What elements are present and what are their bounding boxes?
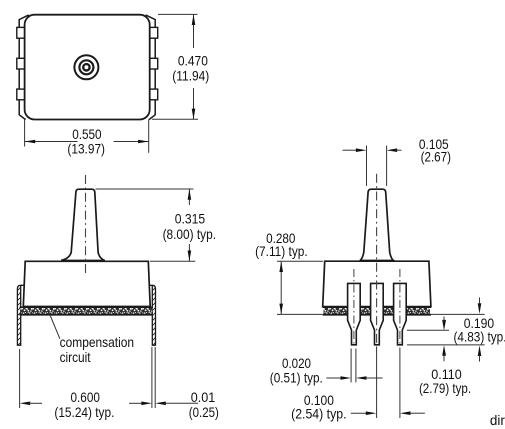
circuit board strip (front view) — [324, 308, 431, 314]
dim 0.100 extension line left (pin2) — [376, 347, 378, 418]
lead tip line — [407, 344, 485, 346]
dim 0.315 arrow up — [188, 189, 192, 200]
dim 0.470 extension line top — [158, 13, 198, 15]
dim 0.110 tail top — [443, 317, 445, 321]
svg-text:compensation: compensation — [60, 334, 135, 350]
svg-text:0.01: 0.01 — [191, 389, 216, 405]
lead shoulder line — [407, 329, 449, 331]
dim 0.190 tail top — [479, 298, 481, 305]
dim 0.600 tail right — [129, 402, 142, 404]
dim 0.315 extension line top — [96, 188, 194, 190]
dim 0.020 tail right — [366, 377, 383, 379]
svg-text:(0.25): (0.25) — [189, 404, 219, 420]
body (front view) — [323, 261, 431, 306]
dim 0.315 arrow down — [188, 251, 192, 262]
dim 0.470 line lower — [193, 88, 195, 119]
dim 0.01 arrow — [155, 402, 166, 406]
dim 0.600 extension line left — [19, 349, 21, 408]
dim 0.190 tail bottom — [479, 355, 481, 362]
svg-text:0.550: 0.550 — [72, 126, 102, 142]
dim 0.100 tail right — [410, 412, 425, 414]
tab right 3 — [150, 89, 158, 100]
dim 0.105 arrow left — [356, 148, 367, 152]
pin 3 — [394, 283, 407, 344]
svg-text:(2.79) typ.: (2.79) typ. — [419, 380, 471, 396]
dim 0.190 arrow bottom — [478, 345, 482, 356]
pin 1 — [348, 283, 361, 344]
tab left 3 — [17, 89, 25, 100]
dim 0.110 tail bottom — [443, 355, 445, 362]
dim 0.280 arrow down — [279, 304, 283, 315]
dim 0.105 arrow right — [387, 148, 398, 152]
dim 0.280 arrow up — [279, 261, 283, 272]
svg-text:circuit: circuit — [60, 349, 91, 365]
leader line — [50, 315, 60, 339]
svg-text:(7.11) typ.: (7.11) typ. — [255, 243, 308, 259]
svg-text:(2.54) typ.: (2.54) typ. — [291, 406, 346, 422]
board bottom edge (front) — [323, 314, 431, 316]
port tube (front view) — [360, 189, 394, 260]
board bottom edge — [20, 314, 153, 316]
cover wall right (side view) — [150, 285, 156, 345]
svg-text:(2.67): (2.67) — [421, 148, 451, 164]
dim 0.550 arrow right — [138, 140, 149, 144]
body (side view) — [23, 261, 150, 306]
dim 0.105 tail right — [396, 149, 402, 151]
dim 0.020 arrow left — [341, 376, 352, 380]
svg-text:dir: dir — [490, 412, 505, 428]
dim 0.100 arrow right — [400, 411, 411, 415]
dim 0.105 extension line left — [366, 146, 368, 186]
pin 3 centerline — [399, 269, 401, 344]
dim 0.315 line upper — [188, 189, 190, 205]
dim 0.470 extension line bottom — [152, 118, 198, 120]
dim 0.600 extension line right inner — [151, 347, 153, 408]
svg-text:(11.94): (11.94) — [172, 67, 209, 83]
dim 0.020 arrow right — [356, 376, 367, 380]
cover edge left — [19, 15, 29, 120]
tab left 1 — [17, 27, 25, 38]
dim 0.020 extension line left — [350, 349, 352, 383]
dim 0.600 tail left — [29, 402, 42, 404]
port ring middle — [79, 60, 93, 74]
port ring outer — [74, 55, 98, 79]
tab right 1 — [150, 27, 158, 38]
dim 0.105 tail left — [343, 149, 358, 151]
dim 0.280 line — [280, 261, 282, 314]
svg-text:(8.00) typ.: (8.00) typ. — [163, 226, 216, 242]
dim 0.110 arrow bottom — [442, 345, 446, 356]
dim 0.280 extension line top — [277, 260, 323, 262]
dim 0.550 line left — [25, 141, 78, 143]
dim 0.470 line upper — [193, 14, 195, 48]
dim 0.190 arrow top — [478, 303, 482, 314]
tab right 2 — [150, 58, 158, 69]
dim 0.100 tail left — [351, 412, 368, 414]
svg-text:(13.97): (13.97) — [67, 141, 105, 157]
svg-text:0.600: 0.600 — [71, 389, 101, 405]
dim 0.600 arrow right — [141, 402, 152, 406]
dim 0.600 arrow left — [20, 402, 31, 406]
dim 0.315 extension line bottom — [150, 260, 195, 262]
board top edge (front) — [323, 306, 431, 308]
svg-text:(0.51) typ.: (0.51) typ. — [270, 369, 323, 385]
dim 0.470 arrow up — [192, 14, 196, 25]
dim 0.020 extension line right — [355, 349, 357, 383]
dim 0.550 extension line right — [148, 120, 150, 153]
svg-text:0.315: 0.315 — [175, 211, 206, 227]
svg-text:0.470: 0.470 — [178, 52, 208, 68]
package body (top view) — [25, 15, 150, 120]
port tube (side view) — [61, 189, 105, 260]
dim 0.01 tail — [165, 402, 199, 404]
board top edge — [20, 306, 153, 308]
pin 1 centerline — [353, 269, 355, 344]
dim 0.550 extension line left — [24, 120, 26, 147]
dim 0.110 arrow top — [442, 320, 446, 331]
dim 0.100 extension line right (pin3) — [399, 348, 401, 419]
package bottom extended line left — [277, 313, 323, 315]
dim 0.315 line lower — [188, 244, 190, 261]
dim 0.105 extension line right — [386, 146, 388, 186]
dim 0.100 arrow left — [366, 411, 377, 415]
dim 0.550 arrow left — [25, 140, 36, 144]
pin 2 — [371, 283, 384, 344]
package bottom extended line right — [431, 313, 485, 315]
dim 0.470 arrow down — [192, 109, 196, 120]
cover edge right — [146, 15, 156, 120]
dim 0.020 tail left — [326, 377, 342, 379]
tab left 2 — [17, 58, 25, 69]
cover wall left (side view) — [17, 285, 25, 345]
centerline (side view) — [85, 175, 87, 274]
dim 0.600 extension line right outer — [154, 347, 156, 408]
dim 0.550 line right — [114, 141, 149, 143]
compensation circuit board (hatched strip) — [21, 308, 153, 314]
svg-text:(15.24) typ.: (15.24) typ. — [54, 404, 114, 420]
centerline (front view) — [376, 174, 378, 347]
port ring inner — [83, 64, 89, 70]
svg-text:(4.83) typ.: (4.83) typ. — [454, 328, 505, 344]
